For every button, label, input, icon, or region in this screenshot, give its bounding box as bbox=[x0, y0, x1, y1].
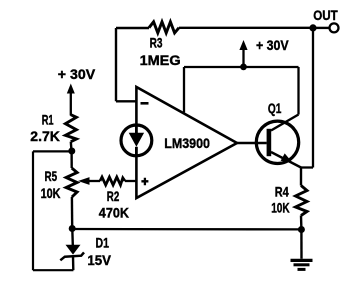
ground bbox=[291, 230, 313, 270]
wire bottom rail bbox=[72, 228, 301, 231]
wire V+ rail horizontal bbox=[184, 66, 299, 68]
wire OUT stub bbox=[313, 27, 329, 29]
resistor R3 bbox=[149, 22, 179, 33]
resistor R1 bbox=[65, 115, 76, 142]
node OUT junction bbox=[309, 24, 316, 31]
OUT terminal circle bbox=[330, 23, 339, 32]
svg-text:Q1: Q1 bbox=[268, 100, 282, 116]
+30V supply arrow (middle) bbox=[239, 40, 247, 67]
resistor R2 bbox=[100, 177, 125, 185]
node ground junction bbox=[298, 226, 305, 233]
svg-text:470K: 470K bbox=[99, 205, 129, 221]
zener diode D1 bbox=[60, 229, 84, 270]
potentiometer R5 bbox=[66, 168, 77, 197]
svg-text:+ 30V: + 30V bbox=[256, 37, 289, 53]
wire top rail right segment bbox=[179, 27, 313, 29]
resistor R4 bbox=[296, 186, 308, 216]
wire R2 to plus input bbox=[125, 180, 136, 182]
svg-text:1MEG: 1MEG bbox=[140, 52, 181, 68]
wire emitter node horizontal bbox=[301, 166, 313, 168]
op-amp minus input sign bbox=[141, 102, 149, 105]
wire feedback box left vertical bbox=[32, 151, 34, 270]
svg-text:OUT: OUT bbox=[313, 7, 338, 23]
wire left vertical from top rail down to minus input bbox=[115, 28, 117, 101]
wire top rail left segment bbox=[116, 27, 149, 29]
R5 wiper arrow bbox=[78, 177, 100, 185]
svg-text:15V: 15V bbox=[87, 252, 111, 268]
node R1/R5 junction bbox=[68, 148, 75, 155]
svg-text:+ 30V: + 30V bbox=[58, 66, 96, 82]
wire op-amp output to Q1 base bbox=[237, 142, 267, 144]
svg-text:10K: 10K bbox=[271, 199, 290, 215]
svg-text:2.7K: 2.7K bbox=[30, 128, 60, 144]
wire R5 to bottom junction bbox=[71, 197, 74, 229]
op-amp plus input sign bbox=[141, 178, 148, 186]
wire emitter to R4 bbox=[300, 168, 302, 186]
svg-text:D1: D1 bbox=[96, 235, 110, 251]
transistor Q1 bbox=[256, 115, 301, 168]
svg-text:R3: R3 bbox=[150, 35, 163, 51]
svg-text:R1: R1 bbox=[42, 111, 54, 127]
svg-text:LM3900: LM3900 bbox=[164, 135, 210, 151]
wire junction to R5 bbox=[70, 151, 72, 168]
wire op-amp V+ pin vertical bbox=[183, 67, 185, 112]
svg-text:R5: R5 bbox=[45, 168, 58, 184]
op-amp U1 LM3900 triangle bbox=[136, 87, 237, 198]
current source symbol inside op-amp bbox=[121, 125, 152, 156]
node V+ rail junction bbox=[240, 64, 247, 71]
+30V supply arrow (left) bbox=[67, 84, 75, 116]
wire OUT vertical down bbox=[312, 28, 314, 168]
svg-text:R4: R4 bbox=[275, 183, 289, 199]
wire minus input horizontal bbox=[116, 100, 137, 102]
node bottom-left junction bbox=[69, 225, 76, 232]
wire R1 to junction bbox=[70, 142, 73, 152]
svg-text:R2: R2 bbox=[107, 188, 120, 204]
wire Q1 collector to V+ rail bbox=[297, 67, 299, 115]
svg-text:10K: 10K bbox=[41, 185, 61, 201]
wire feedback box bottom bbox=[33, 269, 73, 271]
wire R4 to ground node bbox=[300, 216, 303, 230]
wire feedback box top bbox=[33, 150, 72, 152]
